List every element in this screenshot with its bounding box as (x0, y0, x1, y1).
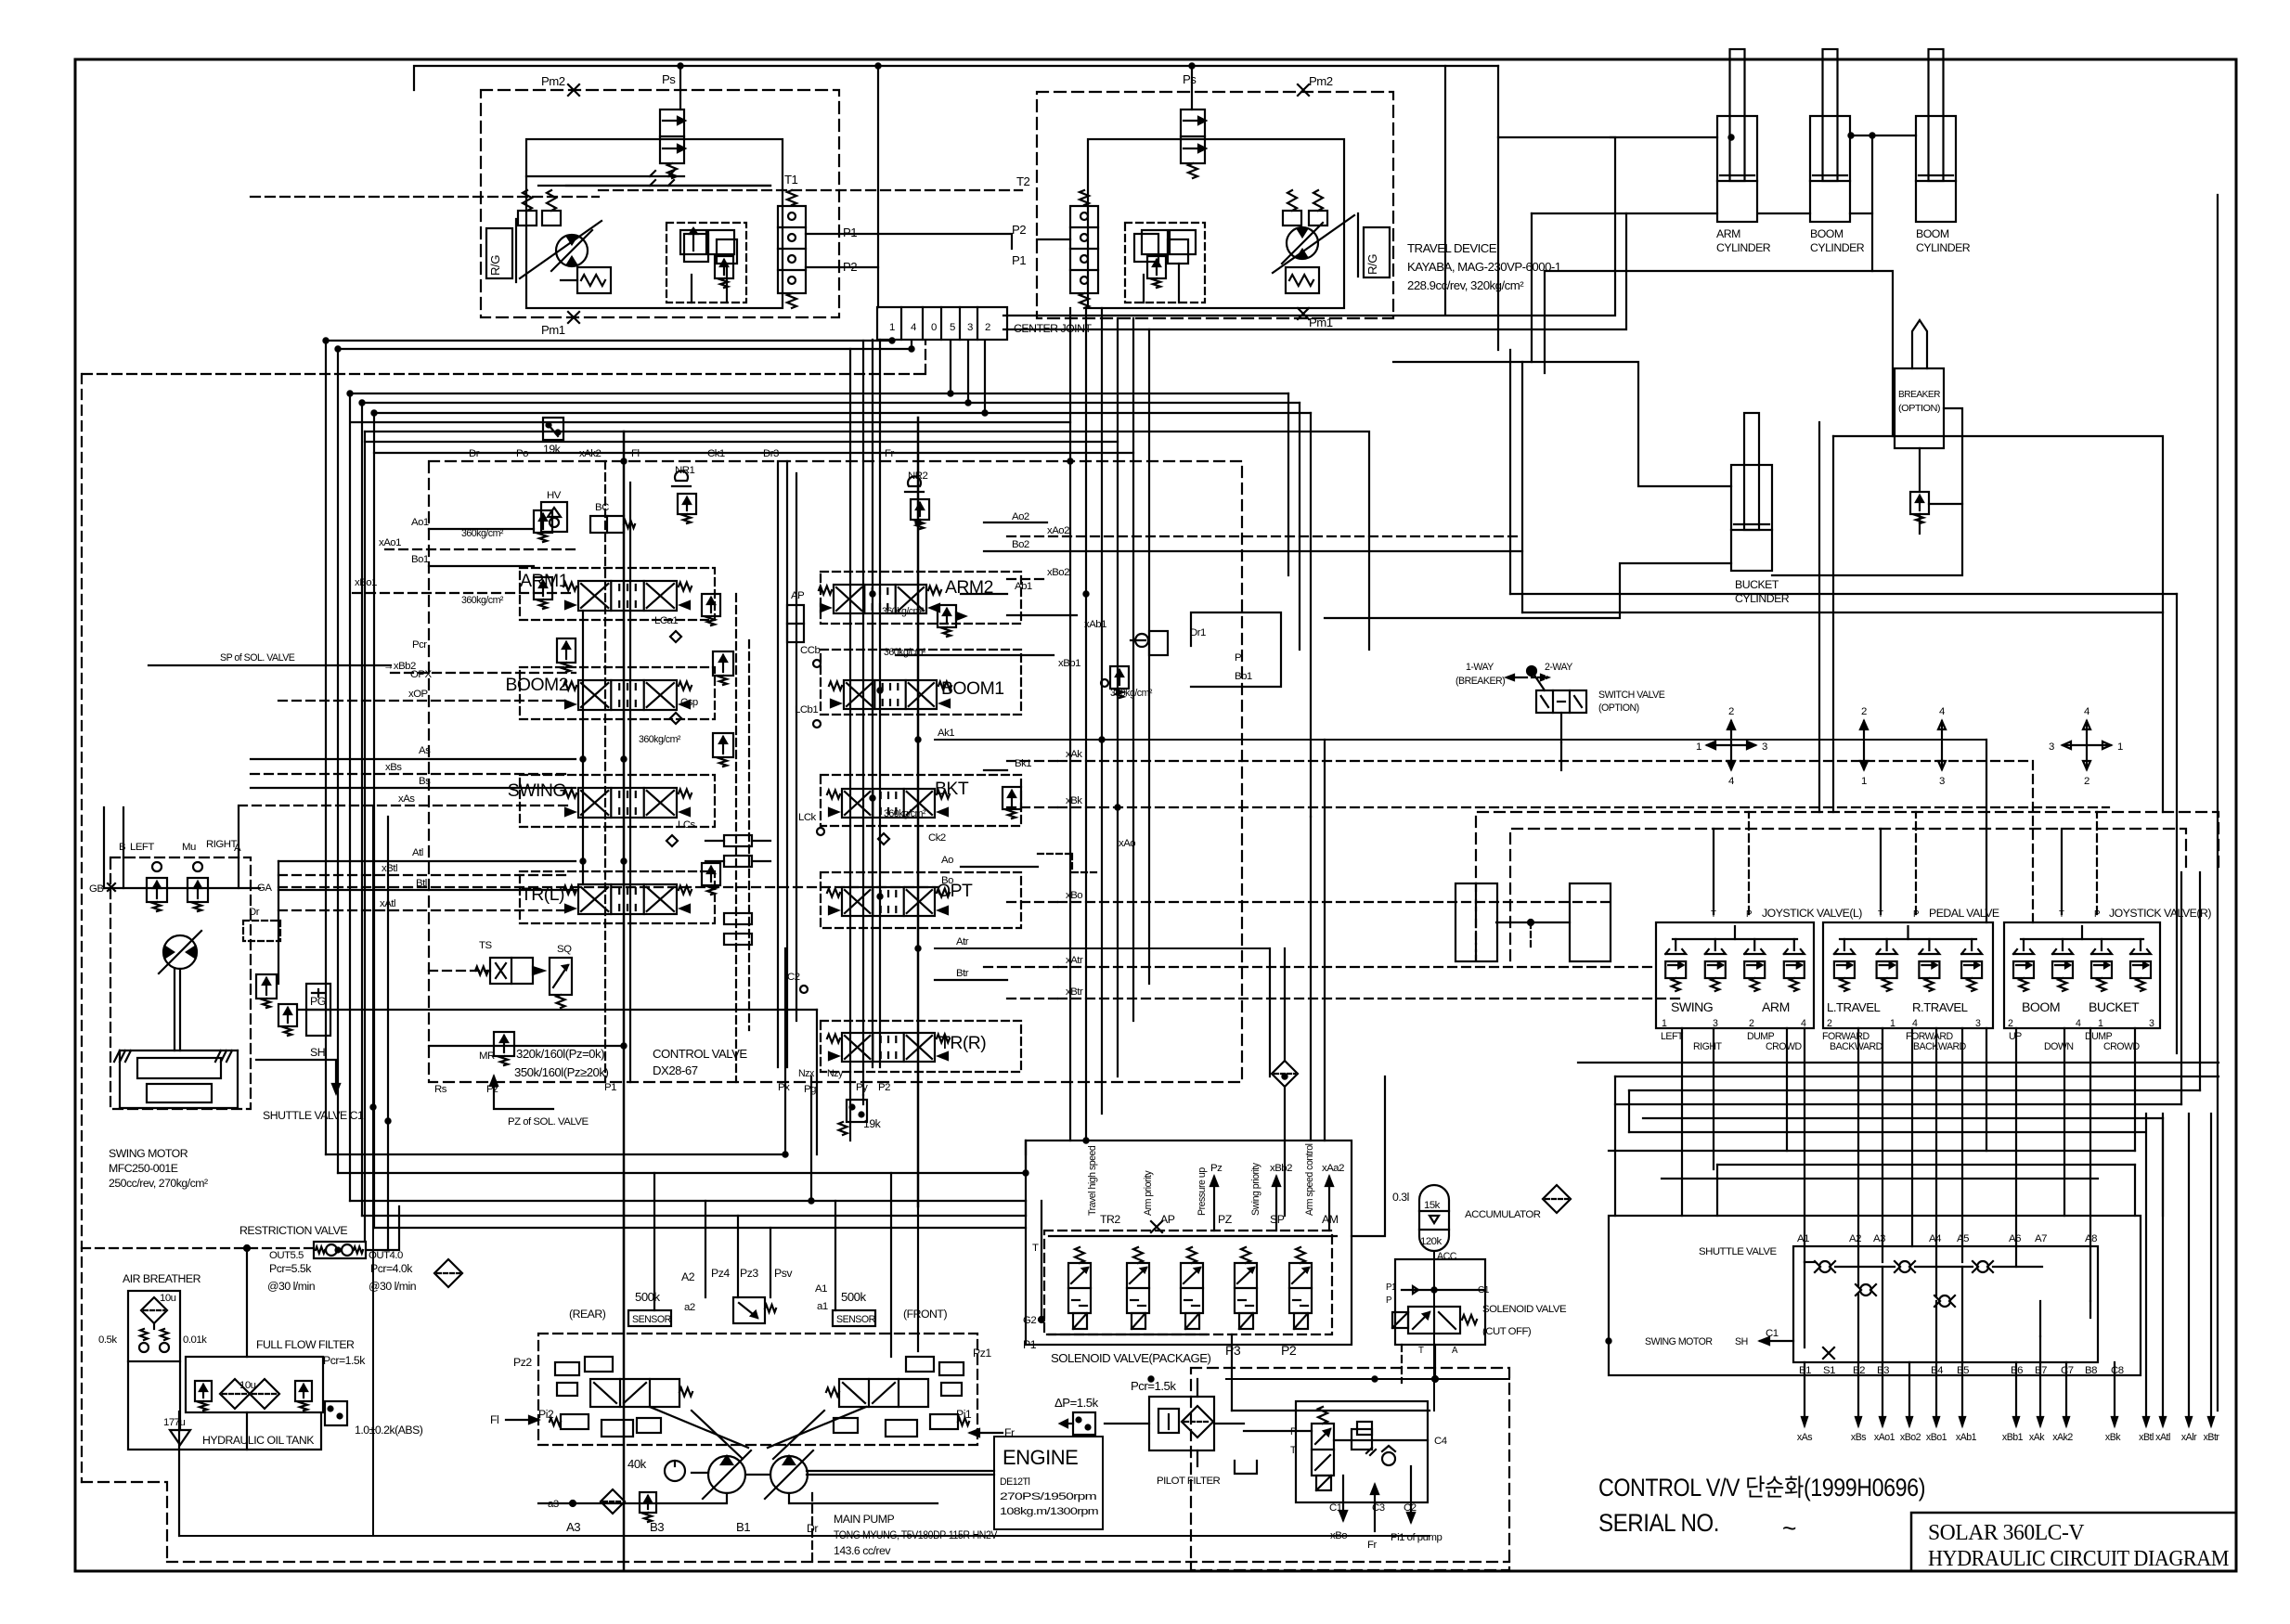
wire Py vertical (862, 1095, 864, 1104)
svg-text:4: 4 (2076, 1018, 2081, 1029)
wire center tall2 (1003, 213, 1626, 329)
svg-text:G2: G2 (1023, 1315, 1036, 1326)
pump shaft (692, 1471, 994, 1475)
svg-text:Btr: Btr (956, 968, 969, 979)
svg-text:1: 1 (2117, 741, 2123, 753)
shuttle valve inner box (1793, 1246, 2098, 1362)
swing relief right (188, 862, 208, 911)
svg-text:Pm2: Pm2 (1309, 74, 1333, 88)
svg-text:Pm1: Pm1 (1309, 316, 1333, 329)
svg-text:a1: a1 (817, 1301, 828, 1312)
svg-text:ACC: ACC (1437, 1251, 1457, 1262)
svg-text:OPX: OPX (410, 669, 432, 680)
solenoid valve PZ (1181, 1247, 1203, 1329)
wire cv dashed box SWING (520, 775, 715, 827)
relief springs R (1283, 190, 1327, 226)
relief 360 BKT (884, 787, 1021, 819)
label 0.01k (183, 1334, 207, 1346)
wire TD-L internal b (566, 185, 770, 187)
svg-text:BREAKER: BREAKER (1898, 390, 1940, 400)
label R/G L (486, 228, 512, 278)
svg-text:RIGHT: RIGHT (206, 839, 237, 850)
wire breaker bus (1226, 1378, 1509, 1380)
wire xBtr dashed (1007, 998, 1058, 999)
svg-text:A3: A3 (566, 1520, 580, 1534)
label ACC (1437, 1251, 1457, 1262)
svg-text:xAtl: xAtl (2155, 1432, 2170, 1443)
svg-text:BOOM: BOOM (1810, 227, 1844, 240)
wire bus right r2 (1299, 403, 1300, 650)
label Pcr 1.5k tank (323, 1354, 366, 1367)
relief 360 Ao1 (461, 510, 552, 542)
svg-text:T2: T2 (1016, 174, 1030, 188)
wire P3 drop (1232, 1334, 1430, 1411)
label Bk1 (1015, 758, 1031, 769)
valve BKT (827, 779, 969, 818)
svg-text:Bo: Bo (941, 875, 953, 886)
svg-text:Arm speed control: Arm speed control (1304, 1143, 1315, 1216)
label GB (89, 883, 115, 895)
label 320k (516, 1047, 604, 1061)
wire swing ports (104, 807, 260, 888)
label Pm2 L (541, 74, 565, 88)
control valve dashed boundary (429, 461, 1242, 1082)
label boom cylinder 1 (1810, 227, 1865, 254)
label P1 R (1012, 253, 1026, 267)
label LCb1 (795, 704, 821, 728)
wire acc G1 (1402, 1286, 1483, 1294)
svg-text:Rs: Rs (434, 1084, 447, 1095)
svg-text:2: 2 (2084, 776, 2089, 787)
svg-text:LEFT: LEFT (1661, 1031, 1684, 1042)
label Btl (416, 878, 427, 889)
label accumulator (1465, 1209, 1541, 1220)
svg-text:Ak1: Ak1 (938, 728, 954, 739)
svg-text:Fl: Fl (631, 448, 640, 459)
gauge 40k (627, 1457, 685, 1481)
svg-text:2: 2 (1827, 1018, 1832, 1029)
label Pm2 R (1309, 74, 1333, 88)
swing motor shaft (175, 969, 180, 1050)
port Pm1 R X marker (1298, 308, 1309, 319)
label C4 (1434, 1436, 1447, 1447)
wire cv mid dashed v2 (748, 640, 750, 1030)
label Pm1 R (1309, 316, 1333, 329)
svg-text:TR(R): TR(R) (939, 1033, 986, 1053)
label dump crowd L (1747, 1031, 1803, 1052)
label Ak1 (938, 728, 954, 739)
wire swing left bus (103, 807, 105, 888)
label xBo1 (355, 577, 377, 588)
svg-text:T: T (1290, 1445, 1297, 1456)
svg-text:Pz1: Pz1 (973, 1347, 991, 1360)
svg-text:2: 2 (1749, 1018, 1754, 1029)
joystick dashed boundary2 (1510, 829, 2186, 960)
svg-text:Ps: Ps (1183, 72, 1197, 86)
label T P joystick L (1711, 909, 1752, 920)
svg-text:SH: SH (1735, 1336, 1748, 1347)
wire restriction right (366, 1206, 399, 1250)
wire cv dashed box BOOM2 (520, 667, 715, 719)
svg-text:360kg/cm²: 360kg/cm² (1110, 688, 1153, 699)
valve SQ (550, 944, 572, 1008)
wire arm cyl top (1498, 66, 1717, 350)
engine box (994, 1437, 1103, 1529)
pedal numbers (1827, 1018, 1981, 1029)
valve 19k top (543, 418, 563, 456)
abs switch (325, 1401, 423, 1437)
relief cartridge L (778, 190, 806, 308)
label 350k (514, 1065, 608, 1079)
label PZ (1218, 1213, 1233, 1226)
svg-text:Pcr=1.5k: Pcr=1.5k (323, 1354, 366, 1367)
svg-text:2: 2 (1728, 706, 1734, 717)
svg-text:A1: A1 (815, 1283, 827, 1295)
breaker package dashed enclosure (1191, 1368, 1509, 1570)
shuttle sym 3 (1973, 1261, 1993, 1272)
svg-text:KAYABA, MAG-230VP-6000-1: KAYABA, MAG-230VP-6000-1 (1407, 260, 1561, 274)
label L TRAVEL (1827, 1000, 1880, 1014)
wire boom cyl feed (1759, 213, 1810, 214)
label SH (310, 1046, 325, 1059)
wire right wrap b (1833, 436, 2163, 812)
wire Dr dashed (811, 1493, 813, 1562)
svg-text:HYDRAULIC CIRCUIT DIAGRAM: HYDRAULIC CIRCUIT DIAGRAM (1928, 1546, 2230, 1571)
wire cv dashed box TRR (821, 1021, 1021, 1072)
svg-text:TONG MYUNG, T5V180DP-115R-HN2V: TONG MYUNG, T5V180DP-115R-HN2V (834, 1528, 998, 1541)
svg-text:SWING MOTOR: SWING MOTOR (109, 1147, 188, 1160)
svg-text:R/G: R/G (1365, 254, 1379, 275)
label BOOM joy (2022, 999, 2060, 1014)
svg-text:3: 3 (967, 322, 973, 333)
wire web v6 (2134, 1165, 2136, 1216)
svg-text:xAk2: xAk2 (2052, 1432, 2073, 1443)
wire port xOP (278, 700, 568, 702)
label SP of SOL VALVE (149, 652, 391, 665)
solenoid valve cutoff (1392, 1307, 1477, 1334)
wire bucket top (1393, 362, 1731, 486)
TD-R sub box (1125, 223, 1205, 303)
svg-text:1: 1 (1890, 1018, 1895, 1029)
wire joystick feeders (1476, 883, 1570, 960)
travel motor L (551, 230, 592, 271)
valve 19k bottom (839, 1100, 882, 1135)
wire web v2 (1628, 1090, 1630, 1132)
wire web v7 (1716, 1165, 1718, 1216)
wire Bk1 (984, 769, 1007, 771)
wire bottom bus4 (362, 1215, 1026, 1217)
label Atr (956, 936, 969, 947)
pedal valve block (1823, 922, 1993, 1028)
valve BOOM1 (829, 678, 1004, 709)
label C1 shuttle (1766, 1328, 1779, 1339)
accumulator (1419, 1185, 1449, 1251)
label pressure up (1197, 1167, 1208, 1216)
label xAo1 (379, 537, 401, 548)
valve PC (256, 974, 297, 1036)
wire xAb1 (956, 612, 1077, 620)
label xBtr (1066, 986, 1083, 998)
label swing motor SH (1645, 1336, 1793, 1347)
wire bus right r1 (1287, 393, 1289, 575)
swash linkage L (516, 219, 602, 282)
wire bus b2 (338, 349, 912, 1173)
pump swash right (768, 1407, 866, 1459)
wire SH (256, 1060, 340, 1093)
svg-text:P2: P2 (1012, 223, 1026, 237)
label P acc (1386, 1282, 1396, 1306)
svg-text:Arm priority: Arm priority (1143, 1170, 1154, 1216)
sensor left (628, 1310, 672, 1326)
label Dr pump (807, 1522, 818, 1535)
label Bo1 (411, 554, 429, 565)
label xBb1 (1058, 658, 1080, 669)
svg-text:SWING: SWING (508, 780, 566, 801)
wire P2 R (1037, 238, 1070, 240)
svg-text:C1: C1 (1766, 1328, 1779, 1339)
svg-text:0.5k: 0.5k (98, 1334, 117, 1346)
label SWING (1671, 999, 1713, 1014)
wire cv mid dashed v1 (735, 594, 737, 1082)
regulator right (826, 1357, 969, 1437)
regulator left (550, 1357, 692, 1437)
sensor right (833, 1310, 876, 1326)
label xAo2 (1047, 525, 1069, 536)
label P2 R (1012, 223, 1026, 237)
svg-text:Ck1: Ck1 (707, 448, 725, 459)
svg-text:1: 1 (1861, 776, 1867, 787)
port Pm2 L X marker (568, 84, 579, 96)
svg-text:500k: 500k (841, 1290, 867, 1304)
label boom cylinder 2 (1916, 227, 1971, 254)
wire restriction dashed (82, 1247, 314, 1249)
label G2 (1023, 1315, 1044, 1326)
svg-text:228.9cc/rev, 320kg/cm²: 228.9cc/rev, 320kg/cm² (1407, 278, 1524, 292)
label arm speed control (1304, 1143, 1315, 1216)
svg-text:xAk: xAk (2029, 1432, 2045, 1443)
svg-text:FULL FLOW FILTER: FULL FLOW FILTER (256, 1338, 355, 1351)
svg-text:40k: 40k (627, 1457, 647, 1471)
label 0.3l (1392, 1191, 1409, 1204)
svg-text:BOOM2: BOOM2 (505, 675, 568, 695)
svg-text:P3: P3 (1225, 1343, 1241, 1358)
svg-text:xAo1: xAo1 (379, 537, 401, 548)
label LCk (798, 812, 824, 835)
svg-text:350k/160l(Pz≥20k): 350k/160l(Pz≥20k) (514, 1065, 608, 1079)
wire bus b1 (326, 341, 892, 1154)
wire port Bs (251, 787, 576, 789)
svg-text:Nzy: Nzy (827, 1068, 844, 1079)
wire riser pair a (849, 349, 851, 1141)
label 500k left (635, 1290, 661, 1304)
svg-text:Dr1: Dr1 (1190, 627, 1206, 638)
wire Ps right riser (1191, 66, 1193, 110)
svg-text:Pg: Pg (804, 1084, 816, 1095)
label Dr swing (243, 907, 280, 941)
svg-text:xBo: xBo (1066, 890, 1082, 901)
label xBo2 (1047, 567, 1069, 578)
svg-text:BOOM: BOOM (1916, 227, 1949, 240)
pump circle front (765, 1450, 813, 1499)
svg-text:P2: P2 (878, 1082, 890, 1093)
wire left spool link (582, 611, 584, 884)
wire Ak1 (935, 739, 1986, 741)
svg-text:4: 4 (2084, 706, 2089, 717)
svg-text:CYLINDER: CYLINDER (1716, 241, 1771, 254)
wire bottom bus3 (350, 1200, 1026, 1202)
svg-text:RIGHT: RIGHT (1693, 1041, 1722, 1052)
svg-text:4: 4 (911, 322, 916, 333)
label xAtl (380, 898, 395, 909)
label BUCKET joy (2089, 999, 2140, 1014)
wire right wrap c (1832, 436, 1834, 812)
relief cartridge R (1070, 190, 1098, 308)
pilot filter box (1149, 1397, 1214, 1450)
svg-text:xBs: xBs (385, 762, 402, 773)
svg-text:120k: 120k (1420, 1236, 1443, 1247)
label Pi (1235, 652, 1243, 664)
relief 360 Ak1 (713, 647, 926, 685)
wire cv mid v1 (777, 461, 779, 1067)
wire xBo dashed (1007, 901, 1058, 903)
wire port xBtl (278, 874, 568, 876)
svg-text:2: 2 (2008, 1018, 2013, 1029)
port Pm2 R X marker (1298, 84, 1309, 96)
svg-text:Ao: Ao (941, 855, 953, 866)
svg-text:360kg/cm²: 360kg/cm² (884, 647, 926, 658)
svg-text:AIR BREATHER: AIR BREATHER (123, 1272, 201, 1285)
svg-text:PILOT FILTER: PILOT FILTER (1157, 1476, 1221, 1487)
parking brake L (561, 267, 611, 293)
svg-text:Psv: Psv (774, 1267, 793, 1280)
svg-text:xAa2: xAa2 (1322, 1163, 1344, 1174)
svg-text:PEDAL VALVE: PEDAL VALVE (1929, 907, 1999, 920)
label CCb (800, 645, 821, 667)
valve TR(L) (521, 884, 692, 914)
wire bus b6 (374, 341, 985, 1228)
svg-text:xBo1: xBo1 (355, 577, 377, 588)
wire xBk dashed (1007, 806, 1058, 808)
svg-text:xAo2: xAo2 (1047, 525, 1069, 536)
svg-text:HV: HV (547, 490, 562, 501)
wire bus nest b (365, 441, 1118, 443)
wire port Atl (278, 861, 576, 984)
svg-text:Dr: Dr (469, 448, 480, 459)
label shuttle valve (1699, 1246, 1777, 1257)
svg-text:Bo1: Bo1 (411, 554, 429, 565)
wire bus r2h (968, 402, 1300, 404)
wire right wrap a (1818, 422, 1820, 812)
counterbalance valve R (1142, 230, 1196, 288)
relief MR (479, 1032, 514, 1065)
wire Btr (935, 979, 1007, 981)
label GA (257, 883, 272, 894)
wire web h8 (1662, 1178, 2098, 1179)
wire web v5 (2199, 872, 2201, 1090)
valve Ps R (1181, 110, 1206, 178)
label Atl (412, 847, 423, 858)
label a2 (684, 1302, 695, 1313)
bucket cylinder (1731, 413, 1772, 571)
wire TD-L internal a (526, 171, 770, 186)
wire pump bottom (573, 1493, 938, 1503)
wire mid right v1640 (1521, 362, 1523, 612)
svg-text:TS: TS (479, 940, 492, 951)
label xBo out (1330, 1476, 1347, 1541)
label full flow filter (256, 1338, 355, 1351)
solenoid valve AP (1127, 1247, 1149, 1329)
svg-text:270PS/1950rpm: 270PS/1950rpm (1000, 1491, 1097, 1502)
label travel device text (1407, 241, 1561, 292)
svg-text:Ao1: Ao1 (411, 517, 429, 528)
svg-text:320k/160l(Pz=0k): 320k/160l(Pz=0k) (516, 1047, 604, 1061)
svg-text:OUT5.5: OUT5.5 (269, 1250, 304, 1261)
svg-text:A3: A3 (1873, 1233, 1885, 1244)
shuttle sym 4 (1856, 1284, 1876, 1295)
tank sym breaker (1235, 1461, 1257, 1474)
wire joystick T P risers (1714, 812, 2097, 914)
label xOP (408, 689, 428, 700)
wire bus b3 dashed (83, 341, 925, 374)
wire P1 dashed gallery (604, 461, 606, 1082)
relief mid a (702, 594, 720, 625)
label P3 (1225, 1343, 1241, 1358)
svg-text:SOLAR 360LC-V: SOLAR 360LC-V (1928, 1520, 2085, 1545)
wire Px vertical (784, 948, 786, 1154)
direction cross 1 (1696, 706, 1767, 787)
wire boom cyl bottom link (1850, 135, 1872, 213)
breaker pkg valve (1312, 1407, 1334, 1490)
svg-text:R/G: R/G (488, 255, 502, 276)
label R/G R (1364, 227, 1390, 277)
wire web h2 (1629, 1089, 2200, 1091)
wire bus b4 (350, 341, 951, 1201)
solenoid valve AM (1289, 1247, 1312, 1329)
svg-text:Pressure up: Pressure up (1197, 1167, 1208, 1216)
svg-text:xAo1: xAo1 (1874, 1432, 1895, 1443)
svg-text:ARM: ARM (1716, 227, 1740, 240)
svg-text:AP: AP (1160, 1213, 1175, 1226)
svg-text:2: 2 (1861, 706, 1867, 717)
wire xBk long dashed (1058, 806, 2109, 808)
svg-text:250cc/rev, 270kg/cm²: 250cc/rev, 270kg/cm² (109, 1177, 208, 1190)
label 0.5k (98, 1334, 117, 1346)
wire cv mid v3 (796, 473, 797, 1021)
wire port xAtl (278, 909, 568, 911)
travel device L inner box (526, 139, 783, 308)
label Bo2 (1012, 539, 1029, 550)
pressure switch dp (1060, 1412, 1095, 1435)
wire bus b5 (362, 341, 968, 1216)
svg-text:xAlr: xAlr (2181, 1432, 2197, 1443)
title box (1911, 1513, 2236, 1571)
label P2 sol (1281, 1343, 1297, 1358)
label Pcr (412, 639, 427, 651)
svg-text:3: 3 (2149, 1018, 2154, 1029)
breaker package box (1296, 1401, 1428, 1502)
svg-text:AP: AP (791, 590, 804, 601)
svg-text:SH: SH (310, 1046, 325, 1059)
svg-text:RESTRICTION VALVE: RESTRICTION VALVE (239, 1224, 347, 1237)
wire center drops2 (1133, 318, 1149, 1021)
svg-text:xBs: xBs (1851, 1432, 1866, 1443)
label Bs (419, 776, 431, 787)
svg-text:P1: P1 (843, 226, 857, 239)
wire T1 dashed bus (599, 189, 1022, 191)
relief springs L (518, 190, 561, 226)
wire port Bo1 (429, 565, 534, 567)
wire breaker C4 (1334, 1439, 1428, 1441)
